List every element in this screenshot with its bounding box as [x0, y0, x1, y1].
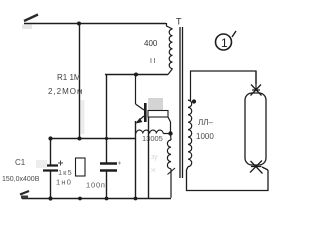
wire VT1 collector — [135, 75, 137, 104]
wire winding II to node — [163, 133, 170, 135]
node bottom emitter — [134, 197, 138, 201]
lamp bottom filament — [250, 161, 268, 174]
svg-text:1: 1 — [221, 36, 228, 50]
node secondary top — [192, 99, 196, 103]
node base winding — [168, 131, 172, 135]
node bottom C3 — [105, 197, 109, 201]
node bottom R2 — [78, 197, 82, 201]
tick near circled 1 — [232, 31, 236, 37]
terminal tick bottom-left — [20, 191, 29, 195]
lamp top filament — [251, 71, 262, 96]
svg-text:400: 400 — [144, 39, 158, 48]
wire snubber vertical — [106, 75, 108, 199]
svg-text:Т: Т — [176, 17, 182, 27]
capacitor C1 polarity — [58, 161, 63, 166]
winding II vertical — [167, 140, 171, 169]
cross mark winding II bottom — [168, 168, 176, 175]
wire bottom rail — [22, 198, 171, 200]
wire top rail — [24, 23, 166, 25]
resistor base box — [148, 111, 168, 118]
svg-text:1н0: 1н0 — [56, 178, 72, 187]
transistor label smudge — [148, 98, 163, 110]
capacitor C3 plates — [100, 164, 117, 171]
circled 1 — [216, 34, 232, 50]
svg-text:II: II — [150, 58, 157, 65]
node bus left end — [48, 136, 52, 140]
scan smear — [81, 100, 85, 134]
faint mark right of C3 — [118, 162, 121, 165]
svg-text:С1: С1 — [15, 158, 26, 167]
svg-text:1к5: 1к5 — [58, 168, 73, 177]
wire bus — [50, 138, 136, 140]
svg-text:ж: ж — [151, 167, 156, 174]
winding III secondary — [188, 100, 192, 167]
scan smudge below terminal — [22, 25, 32, 30]
transistor VT1 collector diagonal — [136, 104, 145, 110]
svg-text:2,2МОм: 2,2МОм — [48, 87, 84, 96]
svg-text:150,0x400В: 150,0x400В — [2, 176, 40, 183]
wire winding I bottom to collector rail — [168, 69, 173, 75]
wire base box to node — [168, 117, 171, 133]
resistor R2 box — [76, 158, 86, 176]
wire emitter to bus and bottom rail — [135, 121, 137, 199]
wire base bypass vertical — [148, 117, 150, 199]
svg-text:1000: 1000 — [196, 132, 214, 141]
node bus snubber — [105, 137, 108, 140]
feedback winding II horizontal — [136, 130, 163, 133]
transformer core — [180, 27, 183, 178]
lamp EL tube — [245, 93, 266, 165]
svg-text:13005: 13005 — [142, 134, 163, 143]
node bus R1 — [78, 137, 82, 141]
wire secondary bottom to lamp — [187, 167, 269, 191]
svg-text:R1 1М: R1 1М — [57, 73, 81, 82]
node collector rail / VT1 — [134, 73, 138, 77]
wire collector rail — [105, 74, 168, 76]
transistor VT1 base bar — [144, 103, 147, 122]
svg-text:100п: 100п — [86, 181, 106, 190]
wire R1 vertical — [79, 23, 81, 139]
capacitor C1 leads — [50, 139, 52, 199]
node bottom C1 — [48, 196, 52, 200]
transistor VT1 emitter diagonal with arrow — [137, 116, 145, 123]
terminal tick top-left — [24, 15, 38, 22]
capacitor C1 plates — [43, 166, 58, 171]
wire winding II lower lead — [170, 134, 173, 198]
scan smudge near C1 — [36, 160, 47, 168]
svg-text:зу: зу — [151, 154, 158, 161]
wire secondary top to lamp — [188, 71, 256, 101]
node junction R1/top rail — [77, 22, 81, 26]
inductor winding I — [169, 29, 172, 69]
wire corner to winding I — [167, 23, 173, 29]
svg-text:ЛЛ–: ЛЛ– — [198, 118, 214, 127]
